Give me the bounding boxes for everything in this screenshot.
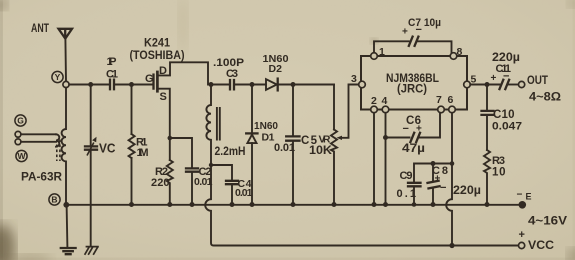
ground rail (66, 204, 519, 206)
terminal -E filled dot (519, 201, 527, 209)
node VR rail junction (332, 202, 337, 207)
svg-text:8: 8 (457, 46, 463, 58)
svg-text:4~16V: 4~16V (528, 215, 567, 227)
node VC junction (88, 82, 93, 87)
terminal VCC (519, 242, 525, 248)
svg-text:(JRC): (JRC) (397, 84, 427, 96)
svg-text:K241: K241 (144, 38, 171, 50)
node C5 junction (291, 82, 296, 87)
terminal circles primary (15, 131, 21, 137)
svg-text:2: 2 (371, 95, 377, 107)
node drain/coil junction (209, 82, 214, 87)
svg-text:+: + (402, 27, 408, 38)
capacitor C10 branch (486, 85, 488, 111)
wire pin 6 down with hop (446, 113, 452, 246)
wire antenna down (64, 39, 67, 82)
node C2 rail junction (190, 202, 195, 207)
svg-text:R3: R3 (492, 155, 505, 167)
pin 6 bubble (449, 106, 456, 113)
node R2 rail junction (167, 202, 172, 207)
wire down to earth (66, 205, 69, 247)
capacitor C2 (186, 168, 198, 171)
VR zigzag (331, 130, 337, 205)
earth ground (61, 248, 76, 254)
svg-text:C7 10µ: C7 10µ (408, 17, 441, 29)
terminal OUT circle (519, 81, 525, 87)
svg-text:1P: 1P (107, 56, 117, 68)
IC U1 NJM386BL box (361, 56, 467, 110)
diode D1 branch (251, 85, 253, 134)
svg-text:−: − (440, 182, 446, 194)
chassis ground (85, 246, 99, 255)
FET Q1 gate bar (152, 75, 154, 89)
svg-text:3: 3 (351, 73, 357, 85)
node C4 rail junction (230, 202, 235, 207)
svg-text:G: G (145, 73, 154, 85)
resistor R1 zigzag (129, 134, 135, 158)
node source/C2 branch (168, 136, 173, 141)
node pin2 rail junction (372, 202, 377, 207)
svg-text:4~8Ω: 4~8Ω (529, 91, 561, 103)
node B circled letter (49, 194, 60, 205)
circled W terminal (16, 150, 27, 161)
pin 1 bubble (371, 53, 378, 60)
node D1 junction (250, 82, 255, 87)
pin 8 bubble (450, 53, 457, 60)
node C8 junction (431, 161, 436, 166)
svg-text:VCC: VCC (528, 240, 554, 252)
svg-text:ANT: ANT (31, 21, 49, 35)
svg-text:7: 7 (436, 94, 442, 106)
svg-text:2.2mH: 2.2mH (215, 144, 246, 158)
FET source wire (159, 89, 170, 160)
capacitor C9 (408, 183, 421, 187)
wire top rail left (69, 84, 109, 86)
node R1 junction (129, 82, 134, 87)
svg-text:S: S (160, 91, 167, 103)
svg-text:10K: 10K (309, 145, 333, 157)
pin 7 bubble (438, 106, 445, 113)
inductor 2.2mH coil (206, 85, 211, 166)
wire pin 4 down (385, 113, 387, 205)
wire to C2 (170, 138, 192, 167)
node coil/C4/VCC junction (209, 163, 213, 167)
svg-text:1M: 1M (137, 147, 149, 159)
svg-text:220: 220 (151, 177, 170, 189)
variable capacitor VC branch wire (90, 85, 92, 247)
wire C3 to D2 (235, 84, 266, 86)
primary wires (21, 134, 56, 142)
node C8/C9 branch (450, 161, 455, 166)
wire C6 loop (386, 137, 410, 139)
svg-text:220µ: 220µ (453, 185, 481, 197)
svg-text:G: G (17, 116, 24, 126)
capacitor VC plates (85, 146, 97, 149)
svg-text:10: 10 (492, 166, 506, 178)
secondary coil on antenna line (62, 88, 66, 205)
svg-text:6: 6 (448, 94, 454, 106)
svg-text:C1: C1 (106, 69, 118, 81)
svg-text:Y: Y (55, 72, 61, 82)
FET drain wire up and over (159, 62, 230, 84)
capacitor C6 electrolytic (410, 133, 420, 142)
wire pin1 to C7 (374, 41, 409, 52)
svg-text:0.1: 0.1 (397, 188, 417, 200)
potentiometer VR branch (333, 85, 335, 130)
VR wiper arrow (337, 136, 343, 140)
svg-text:C9: C9 (400, 170, 413, 182)
svg-text:47µ: 47µ (402, 143, 425, 155)
node C8 rail junction (431, 202, 436, 207)
svg-text:+: + (491, 73, 497, 84)
capacitor C1 (110, 80, 114, 90)
capacitor C7 electrolytic (409, 37, 419, 46)
pin 5 bubble (464, 81, 471, 88)
wire D2 to VR corner (279, 84, 335, 86)
svg-text:C3: C3 (226, 68, 238, 80)
resistor R3 zigzag (484, 150, 490, 205)
node D1 rail junction (250, 202, 255, 207)
wire VCC feed down with hop over rail (205, 165, 518, 246)
node R1 rail junction (129, 202, 134, 207)
svg-text:−: − (517, 189, 523, 200)
svg-text:0.01: 0.01 (194, 176, 213, 188)
svg-text:(TOSHIBA): (TOSHIBA) (130, 50, 185, 62)
svg-text:W: W (17, 151, 26, 161)
node C9 rail junction (412, 202, 417, 207)
capacitor C11 electrolytic (500, 80, 510, 89)
svg-text:OUT: OUT (527, 75, 548, 87)
node Y circled letter (52, 71, 63, 82)
wire C1 to gate (115, 84, 153, 86)
svg-text:1: 1 (379, 46, 385, 58)
capacitor C4 (226, 181, 238, 184)
svg-text:VR: VR (319, 133, 331, 145)
svg-text:0.047: 0.047 (492, 120, 522, 132)
diode D2 (266, 79, 277, 90)
node ground-rail B junction (63, 202, 69, 208)
wire coil to C4 (211, 165, 232, 180)
capacitor C5 branch (292, 85, 294, 137)
svg-text:PA-63R: PA-63R (21, 172, 63, 184)
resistor R2 zigzag (167, 160, 173, 205)
svg-text:D1: D1 (262, 132, 275, 144)
node C6 junction (383, 135, 388, 140)
pin 3 bubble (359, 81, 366, 88)
wire C7 to pin 8 (417, 41, 451, 52)
inductor core lines (217, 108, 220, 140)
svg-text:−: − (403, 123, 409, 135)
node R3 rail junction (485, 202, 490, 207)
svg-text:D2: D2 (269, 63, 283, 75)
node C5 rail junction (291, 202, 296, 207)
terminal Y open circle (63, 81, 69, 87)
svg-text:0.01: 0.01 (274, 142, 295, 154)
capacitor C3 (230, 80, 234, 89)
node C10 junction (485, 82, 490, 87)
node pin6 VCC-rail junction (449, 243, 454, 248)
pin 4 bubble (382, 106, 389, 113)
antenna symbol (59, 29, 73, 39)
svg-text:B: B (51, 195, 57, 205)
svg-text:−: − (416, 24, 422, 36)
svg-text:+: + (519, 229, 525, 241)
node pin4 rail junction (383, 202, 388, 207)
resistor R1 branch (131, 85, 133, 135)
transformer core dashes (57, 140, 60, 162)
svg-text:4: 4 (382, 95, 388, 107)
FET channel bar (156, 71, 159, 93)
svg-text:E: E (526, 192, 532, 202)
pin 2 bubble (371, 106, 378, 113)
wire pin 2 down (373, 113, 375, 205)
wire branch to C9 (414, 164, 452, 183)
capacitor C8 electrolytic (432, 164, 434, 181)
transformer PA-63R : circled G terminal (15, 115, 26, 126)
svg-text:1N60: 1N60 (254, 121, 278, 132)
svg-text:C10: C10 (493, 109, 515, 121)
svg-text:0.01: 0.01 (235, 187, 253, 199)
VC arrow (87, 143, 94, 156)
wire pin 5 output (470, 84, 499, 86)
svg-text:VC: VC (99, 141, 116, 156)
primary coil (56, 134, 59, 146)
